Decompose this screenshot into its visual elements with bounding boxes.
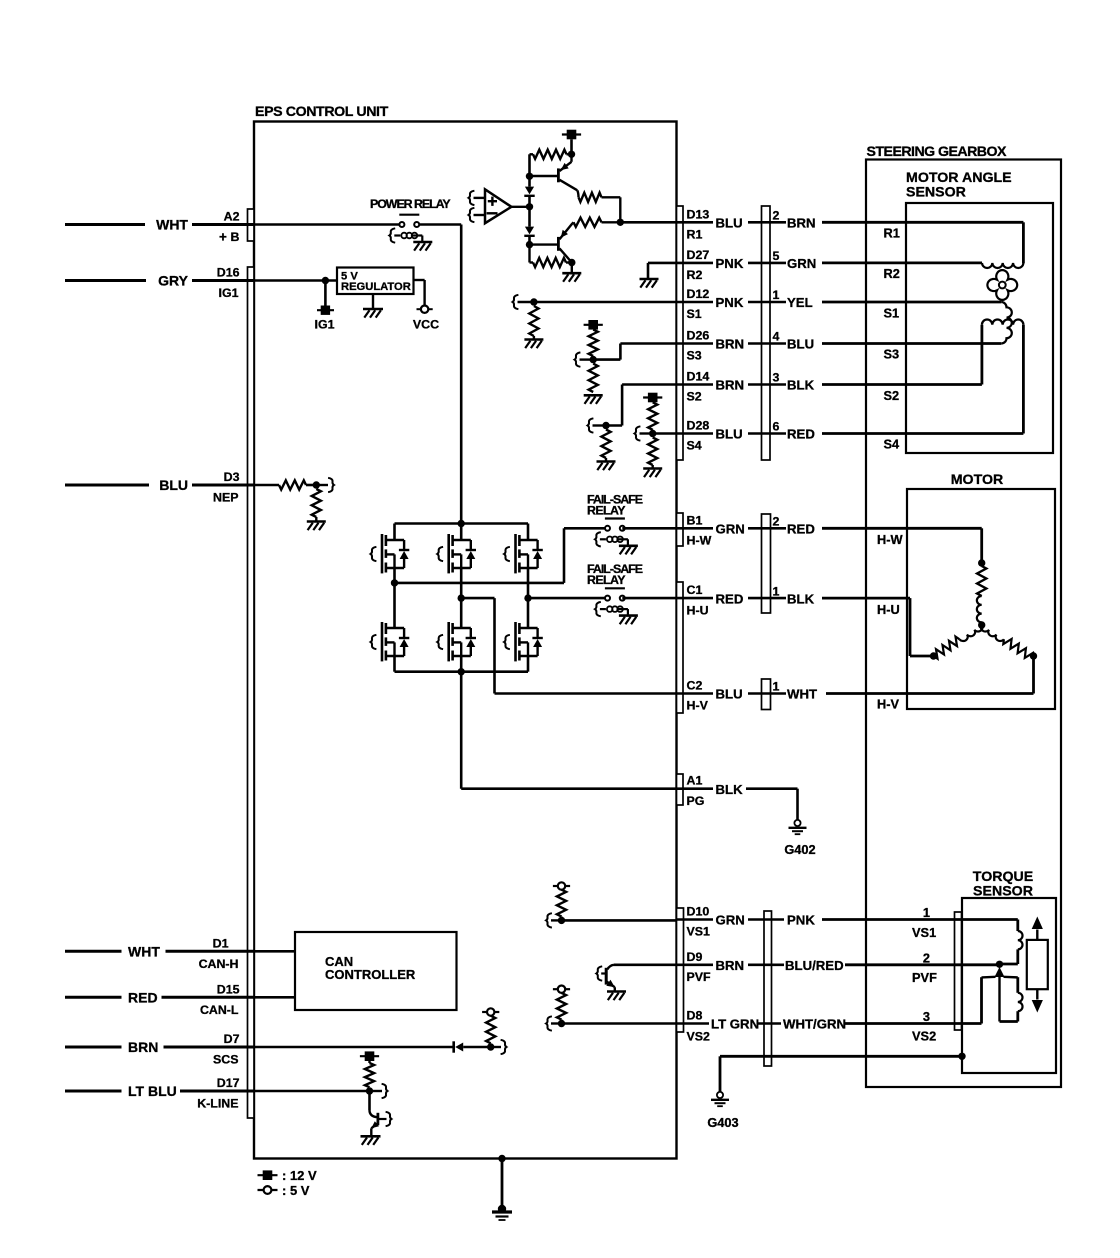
resistor motor W winding <box>977 566 986 596</box>
ground S2 <box>597 460 616 463</box>
torque sensor core <box>1027 940 1048 989</box>
transistor Q8 (low side) <box>527 598 530 628</box>
wire R2 ground stub <box>648 262 677 265</box>
wire RED CAN-L input <box>65 996 122 999</box>
5V pull-up VS2 <box>553 988 558 990</box>
node 12V rail <box>568 151 575 158</box>
wire CAN-H internal <box>254 950 295 953</box>
transistor Q10 K-LINE <box>368 1091 371 1110</box>
svg-text:WHT: WHT <box>156 217 188 233</box>
12V supply for driver <box>567 130 577 140</box>
svg-text:PNK: PNK <box>716 256 744 271</box>
ground G402 <box>794 820 800 826</box>
resistor S3 pulldown <box>589 364 598 392</box>
wire PG to G402 <box>746 787 798 790</box>
wire BLU NEP input <box>65 484 149 487</box>
wire shield to G403 <box>720 1055 962 1058</box>
wire K-LINE internal <box>254 1090 370 1093</box>
ground G403 <box>717 1092 723 1098</box>
svg-text:BRN: BRN <box>787 216 816 231</box>
svg-text:S3: S3 <box>884 347 900 362</box>
svg-text:BLK: BLK <box>787 591 815 606</box>
svg-text:A2: A2 <box>224 210 240 224</box>
coil motor W winding <box>977 596 982 622</box>
wire bridge bottom bus <box>393 656 396 672</box>
svg-text:CONTROLLER: CONTROLLER <box>325 967 416 982</box>
node Q1 base <box>526 173 533 180</box>
regulator ground <box>372 294 374 309</box>
wire H-V bus <box>461 597 494 600</box>
wire GRY IG1 input <box>65 279 146 282</box>
transistor Q1 <box>530 175 558 177</box>
svg-text:R1: R1 <box>687 228 703 242</box>
svg-text:IG1: IG1 <box>315 318 335 332</box>
resistor S1 pulldown <box>529 306 538 336</box>
wire H-W to motor <box>822 527 982 530</box>
svg-text:D16: D16 <box>217 266 240 280</box>
connector bracket sensor 6-pin <box>762 206 771 460</box>
svg-text:SCS: SCS <box>213 1053 238 1067</box>
svg-text:D12: D12 <box>687 287 710 301</box>
coil torque VS1 <box>1018 931 1023 949</box>
svg-text:RELAY: RELAY <box>587 504 626 518</box>
wire S2 internal <box>606 424 622 427</box>
node Q2 ground <box>568 259 575 266</box>
svg-text:YEL: YEL <box>787 295 813 310</box>
svg-text:R2: R2 <box>884 266 900 281</box>
svg-text:R2: R2 <box>687 268 703 282</box>
svg-text:1: 1 <box>773 680 780 694</box>
5V supply SCS <box>482 1011 487 1013</box>
svg-text:PVF: PVF <box>912 970 937 985</box>
coil torque VS2 <box>1016 977 1019 993</box>
svg-text:K-LINE: K-LINE <box>197 1097 238 1111</box>
svg-text:PNK: PNK <box>716 295 744 310</box>
wire WHT CAN-H input <box>65 950 122 953</box>
svg-text:H-V: H-V <box>687 699 709 713</box>
coil resolver primary <box>982 263 1023 268</box>
svg-text:CAN-L: CAN-L <box>200 1003 239 1017</box>
5V pull-up VS1 <box>553 885 558 887</box>
svg-text:CAN-H: CAN-H <box>199 957 239 971</box>
transistor Q7 (low side) <box>460 598 463 628</box>
svg-text:B: B <box>231 230 240 244</box>
svg-text:GRN: GRN <box>716 522 745 537</box>
coil resolver S2-S4 <box>982 320 1024 325</box>
svg-text:D10: D10 <box>687 905 710 919</box>
svg-text:LT GRN: LT GRN <box>711 1017 759 1032</box>
svg-text:2: 2 <box>773 515 780 529</box>
node motor V terminal <box>1030 652 1037 659</box>
wire S4 to sensor <box>822 432 1023 435</box>
wire IG1 inside EPS <box>254 279 337 282</box>
node H-V <box>458 594 465 601</box>
CAN controller box <box>295 932 457 1010</box>
coil motor V winding <box>981 625 1004 641</box>
main ground <box>498 1205 506 1213</box>
svg-text:3: 3 <box>923 1009 930 1024</box>
svg-text:S1: S1 <box>687 307 702 321</box>
wire H-U bus <box>528 597 606 600</box>
svg-text:BRN: BRN <box>716 958 745 973</box>
node SCS <box>487 1043 494 1050</box>
wire VCC output <box>414 279 425 281</box>
svg-text:D3: D3 <box>224 470 240 484</box>
resistor S2 pulldown <box>601 430 610 459</box>
node H-W <box>391 579 398 586</box>
wire R2 to sensor <box>822 261 982 264</box>
svg-text:BLK: BLK <box>787 378 815 393</box>
transistor Q2 <box>530 243 558 245</box>
5V regulator box U2 <box>337 268 414 295</box>
wire R1 to D13 <box>620 221 676 224</box>
VCC 5V terminal <box>421 306 428 313</box>
wire SCS internal <box>254 1046 453 1049</box>
svg-text:GRN: GRN <box>787 256 816 271</box>
svg-text:BRN: BRN <box>128 1039 158 1055</box>
resistor motor V winding <box>1003 639 1033 658</box>
wire H-V to motor <box>826 692 1034 695</box>
resistor driver top <box>530 153 534 155</box>
svg-text:C1: C1 <box>687 583 703 597</box>
svg-text:BLU: BLU <box>716 427 743 442</box>
12V supply S3 <box>588 320 598 330</box>
svg-text:VS2: VS2 <box>687 1030 711 1044</box>
svg-text:: 5 V: : 5 V <box>282 1183 310 1198</box>
svg-text:WHT: WHT <box>128 944 160 960</box>
svg-text:+: + <box>219 230 227 245</box>
svg-text:STEERING GEARBOX: STEERING GEARBOX <box>867 144 1007 160</box>
svg-text:1: 1 <box>773 584 780 598</box>
transistor Q6 (low side) <box>393 583 396 628</box>
node motor U terminal <box>930 652 937 659</box>
ground Q9 <box>607 990 626 993</box>
connector bracket motor 1-pin <box>762 679 771 710</box>
connector bracket torque 3-pin <box>764 911 772 1066</box>
svg-text:5: 5 <box>773 249 780 263</box>
svg-text:G403: G403 <box>707 1115 738 1130</box>
svg-text:SENSOR: SENSOR <box>906 185 966 201</box>
wire VS2 into sensor <box>962 1022 982 1025</box>
node NEP <box>313 481 320 488</box>
svg-text:H-W: H-W <box>687 534 712 548</box>
svg-text:D9: D9 <box>687 950 703 964</box>
transistor Q3 (high side) <box>393 524 396 541</box>
connector bracket A1 <box>677 774 684 805</box>
motor box <box>907 489 1055 709</box>
wire S3 to sensor <box>822 342 1001 345</box>
legend 12V symbol <box>263 1170 273 1180</box>
connector bracket B1 <box>677 513 684 546</box>
node H-U <box>524 594 531 601</box>
node K-LINE <box>366 1087 373 1094</box>
svg-text:WHT/GRN: WHT/GRN <box>783 1017 846 1032</box>
resistor Q2 lower <box>528 245 530 263</box>
svg-text:4: 4 <box>773 330 780 344</box>
wire LT BLU K-LINE input <box>65 1090 122 1093</box>
ground driver <box>562 272 581 275</box>
svg-text:RED: RED <box>787 522 815 537</box>
svg-text:REGULATOR: REGULATOR <box>341 281 411 293</box>
coil resolver S1-S3 <box>1001 302 1012 343</box>
wire H-U to motor <box>822 597 910 600</box>
svg-text:BRN: BRN <box>716 378 745 393</box>
coil motor U winding <box>959 625 982 641</box>
ground S1 <box>524 338 543 341</box>
resistor NEP series <box>279 480 306 489</box>
connector bracket torque-sensor side <box>955 912 962 1030</box>
svg-text:A1: A1 <box>687 774 703 788</box>
node IG1 junction <box>322 277 329 284</box>
node motor W terminal <box>978 559 985 566</box>
wire VS1 internal <box>562 919 677 922</box>
wire +B inside EPS <box>254 223 399 226</box>
12V supply K-LINE <box>365 1051 375 1061</box>
wire to PG <box>460 672 463 789</box>
svg-text:D28: D28 <box>687 419 710 433</box>
svg-text:6: 6 <box>773 420 780 434</box>
svg-text:H-U: H-U <box>687 603 709 617</box>
svg-text:PG: PG <box>687 794 705 808</box>
wire CAN-L internal <box>254 996 295 999</box>
legend 5V symbol <box>258 1189 278 1191</box>
svg-text:S1: S1 <box>884 306 900 321</box>
svg-text:D17: D17 <box>217 1076 240 1090</box>
resistor Q1 emitter <box>577 190 578 197</box>
resistor Q2 collector <box>573 222 574 223</box>
svg-text:2: 2 <box>923 950 930 965</box>
ground S4 <box>643 467 662 470</box>
node VS2 pullup <box>558 1020 565 1027</box>
ground R2 <box>640 278 659 281</box>
diode D_a <box>528 176 531 186</box>
svg-text:B1: B1 <box>687 513 703 527</box>
node VS1 pullup <box>558 917 565 924</box>
svg-text:WHT: WHT <box>787 687 817 702</box>
node shield <box>958 1053 965 1060</box>
wire H-W bus <box>393 568 396 583</box>
connector bracket D10-D8 <box>677 908 684 1032</box>
EPS control unit box <box>254 122 677 1159</box>
svg-text:D13: D13 <box>687 207 710 221</box>
svg-text:G402: G402 <box>784 842 815 857</box>
svg-text:H-W: H-W <box>877 532 904 547</box>
svg-text:H-U: H-U <box>877 602 900 617</box>
svg-text:H-V: H-V <box>877 697 900 712</box>
wire WHT +B input <box>65 223 145 226</box>
node R1 output <box>617 219 624 226</box>
wire relay to bridge <box>419 223 461 226</box>
svg-text:PNK: PNK <box>787 913 815 928</box>
svg-text:GRY: GRY <box>158 273 188 289</box>
svg-text:RED: RED <box>716 591 744 606</box>
svg-text:RELAY: RELAY <box>587 573 626 587</box>
node S2 <box>602 422 609 429</box>
resistor S4 pulldown <box>648 438 657 466</box>
12V supply S4 <box>648 393 658 403</box>
wire S3 internal <box>593 358 620 361</box>
node torque wiper <box>996 961 1003 968</box>
op-amp input plus <box>469 191 475 205</box>
svg-text:S2: S2 <box>687 390 702 404</box>
svg-text:BLU: BLU <box>716 687 743 702</box>
svg-text:BRN: BRN <box>716 337 745 352</box>
svg-text:D27: D27 <box>687 248 710 262</box>
svg-text:BLU: BLU <box>716 216 743 231</box>
op-amp comparator U1 <box>485 189 511 223</box>
ground Q10 <box>361 1135 381 1138</box>
connector bracket D13-S4 <box>677 206 684 460</box>
ground NEP <box>315 517 317 521</box>
wire S1 to sensor <box>822 301 1001 304</box>
svg-text:1: 1 <box>923 905 930 920</box>
svg-text:PVF: PVF <box>687 970 712 984</box>
node EPS ground <box>498 1155 505 1162</box>
svg-text:VCC: VCC <box>413 318 439 332</box>
svg-text:BLU: BLU <box>159 477 188 493</box>
svg-text:BLK: BLK <box>716 782 744 797</box>
resistor S3 pullup <box>589 330 598 356</box>
connector bracket D (left) <box>248 267 255 1118</box>
resistor SCS pullup <box>486 1016 495 1044</box>
connector bracket A2 <box>248 209 255 241</box>
svg-text:D7: D7 <box>224 1032 240 1046</box>
svg-text:R1: R1 <box>884 226 900 241</box>
svg-text:NEP: NEP <box>213 491 238 505</box>
svg-text:BLU/RED: BLU/RED <box>785 958 844 973</box>
diode D_b <box>528 207 531 227</box>
wire C2 internal <box>495 692 677 695</box>
svg-text:2: 2 <box>773 209 780 223</box>
torque wiper arrow <box>995 967 1005 977</box>
transistor Q9 PVF <box>614 963 677 966</box>
svg-text:MOTOR: MOTOR <box>951 472 1004 488</box>
op-amp input minus <box>469 208 475 222</box>
wire S2 to sensor <box>822 383 982 386</box>
connector bracket motor 2-pin <box>762 514 771 613</box>
node S1 <box>530 298 537 305</box>
svg-text:1: 1 <box>773 288 780 302</box>
node power ground <box>458 668 465 675</box>
wire NEP inside EPS <box>254 484 279 487</box>
svg-text:S3: S3 <box>687 349 702 363</box>
resolver rotor <box>987 270 1017 300</box>
wire S4 internal <box>653 432 677 435</box>
svg-text:D14: D14 <box>687 370 710 384</box>
wire S1 internal <box>513 295 519 309</box>
svg-text:C2: C2 <box>687 679 703 693</box>
transistor Q5 (high side) <box>527 524 530 541</box>
svg-text:D1: D1 <box>213 936 229 950</box>
svg-text:VS1: VS1 <box>912 925 936 940</box>
svg-text:RED: RED <box>787 427 815 442</box>
svg-text:POWER RELAY: POWER RELAY <box>370 197 451 211</box>
torque sensor box <box>962 898 1056 1073</box>
steering gearbox box <box>866 160 1061 1088</box>
svg-text:RED: RED <box>128 990 158 1006</box>
svg-text:S4: S4 <box>687 439 702 453</box>
svg-text:SENSOR: SENSOR <box>973 884 1033 900</box>
node S3 <box>590 356 597 363</box>
node motor star point <box>978 621 985 628</box>
wire torque VS2 branch <box>980 977 983 1023</box>
wire R1 to sensor <box>822 221 1023 224</box>
svg-text:VS2: VS2 <box>912 1029 936 1044</box>
diode SCS <box>452 1041 455 1052</box>
svg-text:3: 3 <box>773 371 780 385</box>
wire op-amp output <box>511 206 528 208</box>
wire PVF torque <box>962 963 1000 966</box>
motor angle sensor box <box>906 203 1053 453</box>
resistor K-LINE pullup <box>368 1061 370 1063</box>
node bridge top <box>458 520 465 527</box>
svg-text:EPS CONTROL UNIT: EPS CONTROL UNIT <box>255 104 389 120</box>
svg-text:IG1: IG1 <box>219 286 239 300</box>
ground S3 <box>584 394 603 397</box>
node comparator output <box>526 203 533 210</box>
svg-text:LT BLU: LT BLU <box>128 1083 177 1099</box>
svg-text:GRN: GRN <box>716 913 745 928</box>
wire bridge top bus <box>395 522 529 525</box>
wire BRN SCS input <box>65 1046 122 1049</box>
svg-text:: 12 V: : 12 V <box>282 1168 317 1183</box>
IG1 supply symbol <box>324 281 327 306</box>
node Q2 base <box>526 241 533 248</box>
svg-text:BLU: BLU <box>787 337 814 352</box>
svg-text:VS1: VS1 <box>687 925 711 939</box>
connector bracket C1-C2 <box>677 582 684 713</box>
wire VS1 torque coil <box>962 918 1018 921</box>
resistor motor U winding <box>934 637 960 659</box>
resistor S4 pullup <box>648 402 657 430</box>
node S4 <box>649 430 656 437</box>
svg-text:D15: D15 <box>217 982 240 996</box>
svg-text:D8: D8 <box>687 1009 703 1023</box>
svg-text:D26: D26 <box>687 329 710 343</box>
transistor Q4 (high side) <box>460 524 463 541</box>
resistor NEP pulldown <box>312 489 321 517</box>
svg-text:S4: S4 <box>884 437 901 452</box>
svg-text:S2: S2 <box>884 388 900 403</box>
wire VS2 internal <box>562 1022 677 1025</box>
